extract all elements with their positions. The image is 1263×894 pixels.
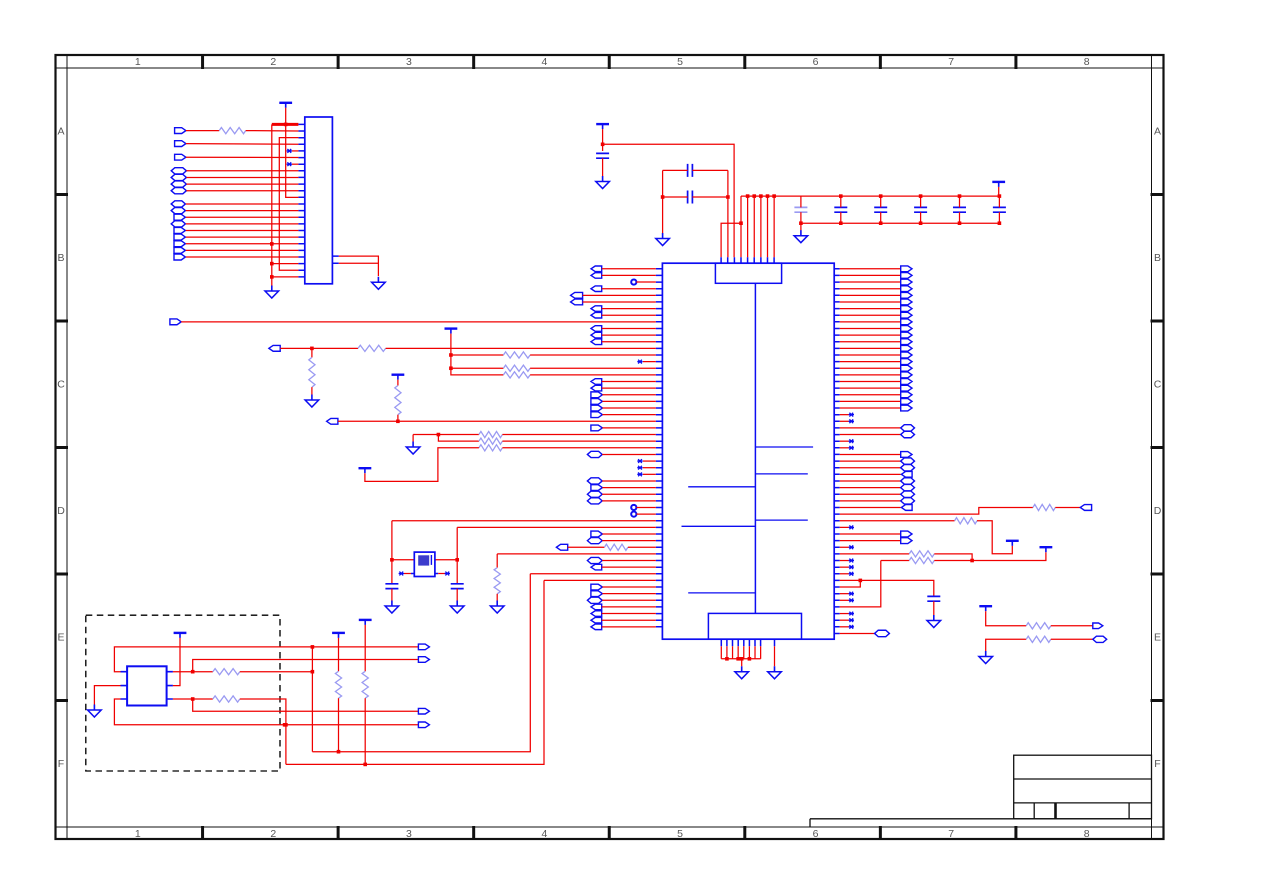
power VCC R7	[392, 374, 405, 376]
no-connect right row 54	[849, 625, 854, 629]
wire IC bottom pin drop	[726, 646, 728, 659]
wire right pin row 1	[840, 274, 901, 276]
IC U1 internal lines	[682, 447, 814, 593]
wire crystal left lead	[392, 559, 414, 561]
svg-text:B: B	[1154, 252, 1161, 264]
port R14	[901, 359, 912, 365]
wire left pin row 33	[602, 487, 655, 489]
wire right pin row 19	[840, 394, 901, 396]
crystal Y1 body	[414, 552, 435, 576]
ground C11	[456, 601, 458, 607]
wire left pin row 35	[602, 500, 656, 502]
wire right pin row 34	[840, 493, 901, 495]
wire left pin row 22	[602, 414, 655, 416]
resistor R13	[1033, 504, 1055, 510]
no-connect left row 31	[637, 472, 642, 476]
resistor R6	[503, 372, 530, 378]
svg-text:A: A	[57, 125, 64, 137]
wire gnd drop row25	[412, 435, 414, 442]
capacitor C3	[688, 191, 693, 204]
wire VCC top bus	[741, 195, 999, 197]
wire C8 leads	[959, 196, 961, 207]
wire R12 to ground	[496, 594, 498, 601]
wire power stem J1	[286, 108, 299, 198]
svg-text:5: 5	[677, 56, 683, 68]
port R2	[901, 279, 912, 285]
title block	[1014, 755, 1152, 819]
port R33	[901, 484, 915, 490]
wire right pin row 11	[840, 341, 901, 343]
svg-text:B: B	[57, 252, 64, 264]
wire row13 to pin	[530, 354, 656, 356]
port L0	[591, 266, 602, 272]
port R34	[901, 491, 915, 497]
IC U1 left pins	[656, 269, 663, 627]
capacitor C1	[596, 153, 609, 158]
wire left pin row 1	[602, 274, 656, 276]
wire left pin row 54	[602, 626, 656, 628]
wire U2 right-bottom net	[173, 698, 213, 700]
wire left row 8 long	[181, 321, 656, 323]
column header cells	[66, 55, 68, 68]
port group3-6	[174, 234, 185, 240]
resistor R18	[1026, 636, 1051, 642]
port R35	[901, 498, 915, 504]
wire right row 47 to C12	[840, 580, 934, 596]
svg-text:7: 7	[948, 56, 954, 68]
svg-text:C: C	[1154, 378, 1162, 390]
wire right pin row 29	[840, 460, 901, 462]
capacitor C7	[914, 207, 927, 212]
svg-text:8: 8	[1084, 828, 1090, 840]
wire nc stub left row 14	[643, 361, 656, 363]
port L45	[591, 564, 602, 570]
wire group3-1	[186, 203, 299, 205]
svg-text:2: 2	[270, 828, 276, 840]
ground IC bottom	[741, 666, 743, 672]
wire left row 4	[583, 294, 656, 296]
wire IC bottom pin drop	[748, 646, 750, 659]
wire R13 to port	[1055, 506, 1080, 508]
wire right pin row 7	[840, 314, 901, 316]
wire right row 37	[840, 507, 1033, 514]
port R13	[901, 352, 912, 358]
IC U1 top inner box	[715, 263, 781, 283]
power VCC R21	[332, 632, 345, 634]
wire IC bottom pin drop	[754, 646, 756, 659]
no-connect right row 39	[849, 525, 854, 529]
wire row15 branch	[451, 367, 504, 369]
wire R21 top	[338, 638, 340, 671]
wire row 764 to IC	[286, 580, 544, 764]
wire IC bottom pin drop	[760, 646, 762, 659]
connector J1 body	[305, 117, 333, 284]
port L1	[591, 273, 602, 279]
resistor R4	[503, 352, 530, 358]
ground cap pair	[662, 233, 664, 239]
wire left pin row 52	[602, 613, 656, 615]
wire IC top pin7	[767, 196, 769, 257]
port R12	[901, 345, 912, 351]
ground R12	[496, 601, 498, 607]
power VCC far right	[979, 605, 992, 607]
wire port IN3	[186, 156, 299, 158]
crystal bottom pin stubs	[411, 573, 438, 575]
wire group2-3	[186, 183, 298, 185]
wire right pin row 30	[840, 467, 901, 469]
wire group2-1	[186, 170, 298, 172]
wire ring stub row 36	[636, 506, 655, 508]
resistor R12	[494, 568, 500, 594]
svg-text:5: 5	[677, 828, 683, 840]
port L12	[269, 345, 280, 351]
wire cap pair left vertical	[662, 170, 664, 233]
wire C2 right	[692, 169, 728, 171]
sheet border frame	[56, 55, 1164, 839]
no-connect left row 29	[637, 459, 642, 463]
wire right pin row 17	[840, 381, 901, 383]
wire nc stub left row 31	[643, 473, 656, 475]
wire pin k21 stub	[272, 263, 299, 265]
wire left pin row 44	[602, 560, 656, 562]
svg-text:F: F	[58, 758, 64, 770]
wire nc stub right row 39	[840, 526, 849, 528]
port L35	[587, 498, 602, 504]
wire left pin row 40	[602, 533, 655, 535]
port R28	[901, 452, 912, 458]
resistor R7	[395, 386, 401, 415]
wire C11 to ground	[456, 589, 458, 601]
ground rows25	[412, 442, 414, 448]
port FR1	[1093, 623, 1103, 629]
svg-text:7: 7	[948, 828, 954, 840]
port L50	[587, 597, 602, 603]
port L10	[591, 332, 602, 338]
wire crystal left vertical	[391, 521, 393, 584]
capacitor C8	[953, 207, 966, 212]
wire nc stub left row 30	[643, 467, 656, 469]
svg-text:4: 4	[542, 56, 548, 68]
resistor R15	[909, 551, 934, 557]
no-connect left row 30	[637, 466, 642, 470]
resistor R16	[909, 557, 934, 563]
port R25	[901, 431, 915, 437]
wire left pin row 7	[602, 314, 656, 316]
resistor R11	[604, 544, 628, 550]
wire left pin row 28	[602, 453, 656, 455]
wire cap pair right vertical to IC pin	[727, 170, 729, 257]
resistor R5	[503, 365, 530, 371]
port L53	[591, 617, 602, 623]
svg-text:1: 1	[135, 828, 141, 840]
resistor R10	[479, 445, 503, 451]
ground connector bus	[271, 286, 273, 292]
wire row27 power path	[365, 448, 479, 482]
resistor R8	[479, 431, 503, 437]
power VCC mid-left	[445, 327, 458, 329]
wire left pin row 17	[602, 381, 656, 383]
port B2	[418, 657, 429, 663]
port L17	[591, 379, 602, 385]
revision strip	[810, 818, 1152, 820]
wire IC bottom pin drop	[743, 646, 745, 659]
wire group3-2	[186, 210, 299, 212]
port L33	[591, 485, 603, 491]
wire row25 to pin	[502, 434, 655, 436]
ring port left row 2	[631, 279, 636, 284]
wire C3 left	[663, 196, 688, 198]
port group3-4	[171, 221, 185, 227]
svg-text:D: D	[1154, 505, 1162, 517]
ground J1 right	[377, 277, 379, 283]
port L7	[591, 312, 602, 318]
wire power top stem	[602, 129, 604, 151]
wire rows 25/26 gnd link	[413, 435, 479, 442]
wire nc stub right row 50	[840, 599, 849, 601]
port R6	[901, 306, 912, 312]
wire R15 junction	[934, 554, 972, 561]
component U2 body	[127, 666, 167, 705]
IC U1 center divider	[754, 283, 756, 613]
wire R7 stem	[397, 380, 399, 386]
wire R2 stub top	[311, 348, 313, 357]
wire U2 left-top net	[114, 647, 418, 672]
wire U2 bottom-left net	[114, 699, 418, 725]
port L51	[591, 604, 602, 610]
wire IC top pin4	[747, 196, 749, 257]
resistor R1	[219, 128, 246, 134]
ground U2	[93, 705, 95, 711]
wire left pin row 19	[602, 394, 655, 396]
wire power to IC pin bundle	[603, 144, 735, 257]
port group3-1	[171, 201, 185, 207]
wire row42 to pin	[628, 546, 656, 548]
wire group3-5	[186, 229, 299, 231]
wire group3-3	[186, 216, 299, 218]
wire nc stub right row 23	[840, 420, 849, 422]
wire right row 51	[840, 561, 881, 607]
no-connect	[287, 149, 292, 153]
wire right pin row 9	[840, 327, 901, 329]
wire group3-9	[186, 256, 299, 258]
wire group3-4	[186, 223, 299, 225]
connector J1 right pins	[332, 256, 338, 263]
wire right row 43	[840, 553, 910, 555]
port IN1	[175, 128, 186, 134]
wire thick supply row pin1	[272, 123, 299, 126]
wire left pin row 32	[602, 480, 656, 482]
wire right pin row 8	[840, 321, 901, 323]
port L23	[327, 418, 338, 424]
wire nc stub right row 45	[840, 566, 849, 568]
wire left row 43	[497, 553, 656, 555]
wire left pin row 53	[602, 619, 656, 621]
port R4	[901, 292, 912, 298]
wire right pin row 2	[840, 281, 901, 283]
U2 pins	[121, 672, 173, 699]
wire IC top pin0	[721, 223, 741, 257]
connector J1 left pins	[298, 124, 304, 277]
port B1	[418, 644, 429, 650]
ground C10	[391, 601, 393, 607]
wire row16 to pin	[530, 374, 656, 376]
wire right pin row 20	[840, 400, 901, 402]
resistor R21	[335, 671, 341, 698]
wire B2 branch	[193, 660, 419, 672]
wire right pin row 14	[840, 361, 901, 363]
port L20	[591, 399, 603, 405]
wire C12 to ground	[933, 601, 935, 615]
wire IC bottom pin drop	[737, 646, 739, 659]
port R20	[901, 399, 912, 405]
port R29	[901, 458, 915, 464]
wire right pin row 35	[840, 500, 901, 502]
wire left pin row 41	[602, 540, 656, 542]
power VCC row27	[359, 467, 372, 469]
wire IC top pin8	[773, 196, 775, 257]
wire C2 left	[663, 169, 688, 171]
no-connect right row 42	[849, 545, 854, 549]
port R21	[901, 405, 912, 411]
port R8	[901, 319, 912, 325]
port R37 far	[1080, 505, 1091, 511]
wire right pin row 18	[840, 387, 901, 389]
port group3-8	[174, 247, 185, 253]
wire right pin row 31	[840, 473, 901, 475]
port L52	[591, 611, 602, 617]
wire R7 to row23	[397, 415, 399, 422]
wire C6 leads	[880, 196, 882, 207]
wire right pin row 15	[840, 367, 901, 369]
IC U1 top pins	[721, 257, 774, 263]
port L32	[587, 478, 602, 484]
port L41	[587, 538, 602, 544]
wire C3 right	[692, 196, 728, 198]
no-connect pin k4	[292, 150, 298, 152]
wire crystal right lead	[435, 559, 458, 561]
port R7	[901, 312, 912, 318]
no-connect right row 26	[849, 439, 854, 443]
svg-text:E: E	[1154, 631, 1161, 643]
wire nc stub right row 22	[840, 414, 849, 416]
wire IC top pin6	[760, 196, 762, 257]
port R30	[901, 465, 915, 471]
IC U1 bottom pins	[721, 639, 774, 646]
port R40	[901, 531, 912, 537]
wire row25 to R8	[438, 434, 479, 436]
wire crystal nc-left stub	[404, 573, 411, 575]
port L5	[571, 299, 583, 305]
wire left pin row 6	[602, 308, 656, 310]
wire R2 to ground	[311, 387, 313, 394]
power VCC top	[596, 123, 609, 125]
wire right row 55	[840, 632, 875, 634]
wire bus 312 vertical	[311, 647, 313, 752]
wire left row 23	[338, 420, 656, 422]
wire right pin row 25	[840, 434, 901, 436]
wire nc stub right row 27	[840, 447, 849, 449]
wire U2 left-mid to ground	[94, 686, 120, 705]
ground IC bottom 2	[774, 666, 776, 672]
wire left pin row 3	[602, 288, 656, 290]
wire right pin row 16	[840, 374, 901, 376]
wire crystal right vertical	[456, 527, 458, 583]
ground far right	[985, 651, 987, 657]
capacitor C10	[385, 584, 398, 589]
wire ring stub row 2	[636, 281, 655, 283]
wire nc stub right row 46	[840, 573, 849, 575]
IC U1 body	[662, 263, 834, 639]
wire B3 branch	[193, 699, 419, 711]
no-connect right row 23	[849, 419, 854, 423]
wire row42	[568, 546, 605, 548]
port FR2	[1093, 636, 1107, 642]
svg-text:D: D	[57, 505, 65, 517]
no-connect right row 52	[849, 612, 854, 616]
svg-text:3: 3	[406, 56, 412, 68]
wire left pin row 20	[602, 400, 655, 402]
dashed enclosure box	[86, 615, 280, 771]
port B3	[418, 708, 429, 714]
wire right pin row 33	[840, 487, 901, 489]
wire port IN1 to R1	[186, 130, 219, 132]
port L18	[591, 385, 602, 391]
port L3	[591, 286, 602, 292]
wire U2 power	[173, 638, 180, 686]
IC U1 right pins	[834, 269, 840, 634]
wire ring stub row 37	[636, 513, 655, 515]
power VCC R22	[359, 619, 372, 621]
ground C12	[933, 615, 935, 621]
wire IC top pin5	[753, 196, 755, 257]
power VCC U2	[174, 632, 187, 634]
wire left row 12	[280, 347, 358, 349]
port group2-2	[171, 174, 186, 180]
resistor R20	[213, 696, 240, 702]
port R10	[901, 332, 912, 338]
wire J1 right pins to ground	[339, 256, 379, 276]
wire row 751 to IC	[312, 574, 530, 752]
port L44	[587, 557, 602, 563]
wire right pin row 10	[840, 334, 901, 336]
ring port left row 37	[631, 512, 636, 517]
port group2-1	[171, 168, 186, 174]
port L54	[591, 624, 602, 630]
svg-text:F: F	[1154, 758, 1160, 770]
wire right row 38	[840, 520, 955, 522]
port L34	[587, 491, 602, 497]
port L40	[591, 531, 603, 537]
wire port IN2	[186, 143, 299, 146]
wire IC bottom ground bus	[721, 658, 760, 660]
wire nc stub right row 26	[840, 440, 849, 442]
port R32	[901, 478, 915, 484]
port L4	[571, 292, 583, 298]
row header cells	[56, 67, 68, 69]
no-connect crystal left	[399, 572, 404, 576]
wire IC bottom pin drop	[720, 646, 722, 659]
wire right pin row 32	[840, 480, 901, 482]
wire nc stub right row 49	[840, 593, 849, 595]
port L22	[591, 412, 603, 418]
wire left pin row 45	[602, 566, 656, 568]
capacitor C5	[834, 207, 847, 212]
wire row26 to pin	[502, 440, 655, 442]
port L21	[591, 405, 603, 411]
wire nc stub right row 42	[840, 546, 849, 548]
wire left pin row 51	[602, 606, 656, 608]
port B4	[418, 722, 429, 728]
